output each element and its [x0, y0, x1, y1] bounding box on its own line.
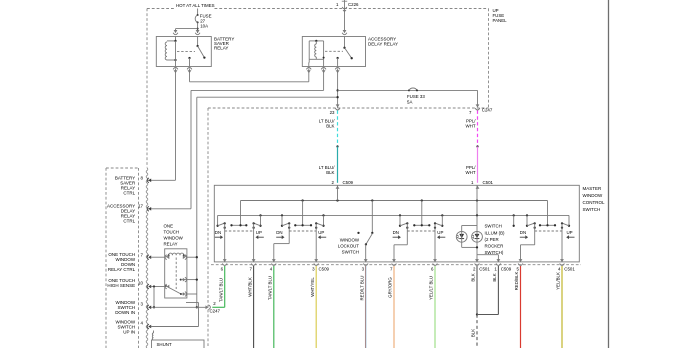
- svg-text:DN: DN: [276, 230, 282, 235]
- svg-text:RELAY: RELAY: [214, 46, 228, 51]
- svg-text:C509: C509: [501, 266, 512, 271]
- svg-text:WHT: WHT: [466, 124, 476, 129]
- svg-text:DOWN IN: DOWN IN: [115, 310, 135, 315]
- svg-text:C501: C501: [483, 180, 494, 185]
- svg-text:HIGH SENSE: HIGH SENSE: [107, 283, 135, 288]
- svg-text:SWITCH: SWITCH: [485, 224, 502, 229]
- svg-text:RELAY CTRL: RELAY CTRL: [108, 267, 136, 272]
- svg-text:DN: DN: [215, 230, 221, 235]
- svg-text:ILLUM (B): ILLUM (B): [485, 230, 506, 235]
- svg-text:UP: UP: [567, 230, 573, 235]
- svg-text:WINDOW: WINDOW: [164, 236, 184, 241]
- svg-text:UP IN: UP IN: [123, 330, 135, 335]
- svg-text:BLK: BLK: [471, 273, 476, 281]
- svg-text:SHUNT: SHUNT: [157, 342, 172, 347]
- svg-text:SWITCH: SWITCH: [583, 207, 601, 212]
- svg-text:C501: C501: [564, 266, 575, 271]
- svg-text:YEL/BLK: YEL/BLK: [556, 272, 561, 290]
- svg-text:C509: C509: [319, 266, 330, 271]
- svg-text:10: 10: [138, 280, 143, 285]
- svg-text:SWITCH: SWITCH: [342, 249, 359, 254]
- svg-text:TAN/LT BLU: TAN/LT BLU: [218, 278, 223, 302]
- svg-text:RED/LT BLU: RED/LT BLU: [359, 276, 364, 301]
- svg-text:BLK: BLK: [492, 273, 497, 281]
- svg-text:HOT AT ALL TIMES: HOT AT ALL TIMES: [176, 3, 215, 8]
- svg-text:BLK: BLK: [471, 329, 476, 337]
- svg-text:SWITCH): SWITCH): [485, 250, 504, 255]
- svg-text:DN: DN: [393, 230, 399, 235]
- svg-text:10A: 10A: [200, 23, 208, 28]
- svg-text:C509: C509: [343, 180, 354, 185]
- svg-text:WINDOW: WINDOW: [583, 193, 603, 198]
- svg-text:CONTROL: CONTROL: [583, 200, 605, 205]
- svg-text:WHT/BLK: WHT/BLK: [247, 277, 252, 297]
- svg-text:ROCKER: ROCKER: [485, 244, 504, 249]
- svg-text:C247: C247: [482, 108, 493, 113]
- svg-text:MASTER: MASTER: [583, 186, 603, 191]
- svg-text:C501: C501: [479, 266, 490, 271]
- svg-text:C226: C226: [348, 2, 359, 7]
- svg-text:TAN/LT BLU: TAN/LT BLU: [268, 276, 273, 300]
- svg-text:DN: DN: [520, 230, 526, 235]
- svg-text:5A: 5A: [407, 99, 412, 104]
- svg-text:WHT: WHT: [466, 170, 476, 175]
- svg-text:C247: C247: [210, 309, 221, 314]
- svg-text:UP: UP: [256, 230, 262, 235]
- svg-text:GRY/ORG: GRY/ORG: [388, 277, 393, 298]
- svg-text:PANEL: PANEL: [493, 18, 508, 23]
- svg-text:ONE: ONE: [164, 224, 174, 229]
- svg-text:CTRL: CTRL: [123, 219, 135, 224]
- svg-text:WHT/YEL: WHT/YEL: [310, 277, 315, 297]
- svg-text:YEL/LT BLU: YEL/LT BLU: [429, 276, 434, 300]
- svg-text:TOUCH: TOUCH: [164, 230, 180, 235]
- svg-text:BLK: BLK: [326, 170, 334, 175]
- svg-text:UP: UP: [318, 230, 324, 235]
- svg-text:CTRL: CTRL: [123, 191, 135, 196]
- svg-text:UP: UP: [437, 230, 443, 235]
- svg-text:17: 17: [138, 203, 143, 208]
- svg-text:DELAY RELAY: DELAY RELAY: [368, 42, 398, 47]
- svg-text:23: 23: [330, 110, 335, 115]
- svg-text:BLK: BLK: [326, 124, 334, 129]
- svg-text:(2 PER: (2 PER: [485, 237, 499, 242]
- svg-text:RELAY: RELAY: [164, 242, 178, 247]
- svg-text:RED/BLK: RED/BLK: [514, 272, 519, 291]
- svg-text:LOCKOUT: LOCKOUT: [338, 243, 360, 248]
- svg-text:WINDOW: WINDOW: [340, 238, 360, 243]
